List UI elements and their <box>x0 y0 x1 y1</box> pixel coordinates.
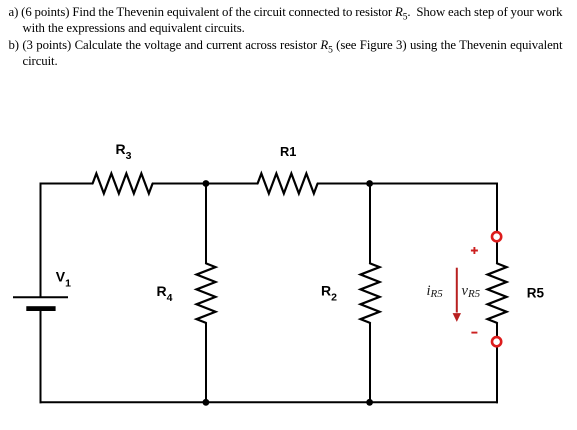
label R5 <box>527 285 545 300</box>
resistor R1 <box>258 174 318 194</box>
battery V1 negative plate (short thick) <box>26 306 55 311</box>
svg-text:V1: V1 <box>56 269 71 290</box>
svg-text:R2: R2 <box>321 283 337 304</box>
polarity plus sign (red) <box>471 247 478 254</box>
resistor R4 <box>197 263 216 323</box>
problem text line a2 <box>23 21 245 35</box>
resistor R5 <box>488 263 507 323</box>
wire: R5 branch top lead (right rail) <box>496 183 498 264</box>
label R3 <box>116 141 132 162</box>
wire: R2 branch top lead <box>369 184 371 264</box>
junction node A (R4 top, dot) <box>203 180 210 187</box>
label vR5 <box>462 283 481 300</box>
svg-text:iR5: iR5 <box>427 283 444 300</box>
label V1 <box>56 269 71 290</box>
svg-text:vR5: vR5 <box>462 283 481 300</box>
svg-text:R5: R5 <box>527 285 545 300</box>
wire: bottom rail <box>40 401 499 403</box>
junction node D (R2 bottom, dot) <box>366 399 373 406</box>
wire: R4 branch bottom lead <box>205 323 207 402</box>
wire: R4 branch top lead <box>205 184 207 264</box>
battery V1 positive plate (long thin) <box>13 296 68 298</box>
resistor R2 <box>361 263 380 323</box>
problem text line b1 <box>9 38 563 58</box>
wire: R5 branch bottom lead <box>496 323 498 403</box>
current arrow iR5 (red, downward) <box>453 268 461 322</box>
wire: left branch below battery to bottom rail <box>40 311 42 403</box>
polarity minus sign (red) <box>471 332 477 334</box>
problem text line a1 <box>9 5 563 25</box>
svg-text:R4: R4 <box>157 283 173 304</box>
junction node B (R2 top, dot) <box>366 180 373 187</box>
terminal node: R5 top (red open circle) <box>492 232 501 241</box>
wire: left branch vertical (top corner down to battery top plate) <box>40 183 42 297</box>
resistor R3 <box>93 174 153 194</box>
problem text line b2 <box>23 54 58 68</box>
wire: R2 branch bottom lead <box>369 323 371 402</box>
label R2 <box>321 283 337 304</box>
wire: top rail from left corner to R3 <box>40 183 93 185</box>
label iR5 <box>427 283 444 300</box>
label R1 <box>280 144 296 159</box>
svg-text:R1: R1 <box>280 144 296 159</box>
svg-text:R3: R3 <box>116 141 132 162</box>
wire: top rail R3 to R1 (through node A) <box>153 183 258 185</box>
terminal node: R5 bottom (red open circle) <box>492 337 501 346</box>
wire: top rail R1 to top-right corner (through node B) <box>318 183 498 185</box>
label R4 <box>157 283 173 304</box>
junction node C (R4 bottom, dot) <box>203 399 210 406</box>
